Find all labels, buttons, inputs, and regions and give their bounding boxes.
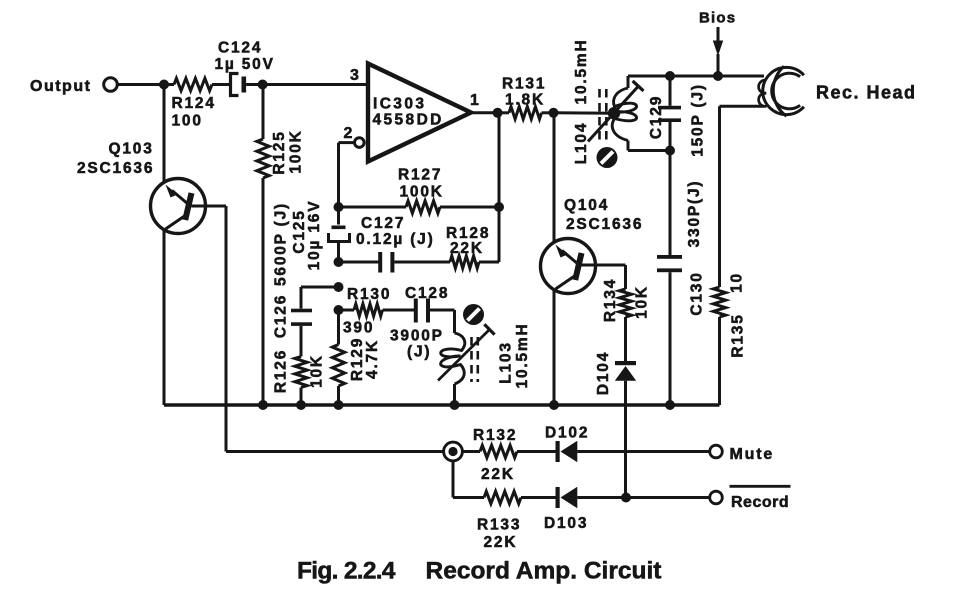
rail junction R125 [258,400,268,410]
node A junction [159,80,169,90]
inductor L104 [573,39,637,165]
node H junction [334,305,344,315]
svg-text:5600P (J): 5600P (J) [273,202,290,286]
svg-text:L103: L103 [497,341,514,384]
capacitor C128 [390,285,455,361]
svg-text:22K: 22K [450,240,484,257]
wire op-amp output [471,111,498,114]
svg-text:R126: R126 [273,349,290,393]
connector node M bullseye [444,442,463,461]
wire rec head return [720,106,765,287]
L103 core dashes [472,337,478,382]
svg-text:2SC1636: 2SC1636 [77,160,154,177]
svg-text:C128: C128 [405,285,449,302]
svg-text:R125: R125 [271,130,288,174]
svg-text:(J): (J) [407,344,431,361]
svg-text:C127: C127 [361,215,405,232]
rail junction R126 [296,400,306,410]
wire output to node A [117,83,164,86]
svg-text:10: 10 [729,272,746,293]
svg-text:D104: D104 [595,351,612,395]
wire C124 to node B [246,83,263,86]
transistor Q103 [77,85,206,406]
node I junction [549,108,559,118]
svg-text:L104: L104 [573,122,590,165]
L103 adjust arrow [438,324,495,380]
pin 2 bubble [355,138,365,148]
svg-text:R135: R135 [730,313,747,357]
Mute terminal [710,445,774,463]
diode D102 [545,425,710,463]
Record terminal [710,486,791,511]
capacitor C130 [657,180,706,405]
svg-text:R124: R124 [172,95,216,112]
diode D104 [595,351,636,498]
rail junction Q104 [549,400,559,410]
resistor R125 [257,85,305,406]
svg-text:10.5mH: 10.5mH [514,323,531,389]
inductor L103 [441,310,531,405]
Output terminal [30,78,117,95]
node D junction [334,202,344,212]
wire bullseye down [453,460,484,498]
svg-text:Q103: Q103 [109,141,154,158]
resistor R134 [602,278,651,361]
svg-text:10µ 16V: 10µ 16V [306,200,323,271]
svg-text:R134: R134 [602,278,619,322]
L104 adjust arrow [588,81,644,142]
svg-text:C124: C124 [218,40,262,57]
rail junction R129 [334,400,344,410]
wire node B to op-amp pin 3 [263,67,368,85]
resistor R128 [446,207,499,268]
node F junction [334,257,344,267]
rail junction C130 [665,400,675,410]
svg-text:C126: C126 [273,294,290,338]
svg-text:10K: 10K [634,285,651,319]
svg-text:10.5mH: 10.5mH [573,39,590,105]
resistor R127 [339,167,500,214]
op-amp U1 IC303 [344,64,481,162]
transistor Q104 [541,113,644,405]
svg-text:10K: 10K [309,354,326,388]
svg-text:R133: R133 [477,517,521,534]
svg-text:C129: C129 [648,95,665,139]
svg-text:100: 100 [172,113,203,130]
svg-text:Q104: Q104 [564,197,609,214]
resistor R131 [498,76,554,120]
svg-text:D103: D103 [544,515,588,532]
L104 core dashes [600,89,607,145]
L104 screw adjust [597,147,618,168]
wire top rail [670,75,764,78]
svg-text:100K: 100K [400,184,444,201]
labels C126 value [273,202,290,338]
node C junction (output) [493,108,503,118]
Bios arrow [713,27,723,76]
svg-text:330P(J): 330P(J) [686,180,703,248]
svg-text:2SC1636: 2SC1636 [566,216,643,233]
svg-text:C130: C130 [689,271,706,315]
resistor R130 [339,286,415,337]
svg-text:2: 2 [344,125,355,142]
svg-text:R130: R130 [347,286,391,303]
wire L104 top lead [628,76,670,88]
node N junction [621,493,631,503]
capacitor C125 [291,200,349,271]
svg-text:D102: D102 [545,425,589,442]
svg-text:3: 3 [350,67,361,84]
svg-text:22K: 22K [484,534,518,551]
capacitor C126 [291,309,312,357]
diode D103 [544,487,710,532]
svg-text:4558DD: 4558DD [373,112,444,129]
resistor R129 [332,310,381,405]
svg-text:Record: Record [731,494,789,511]
Bios label [699,10,736,27]
wire node G to C126 [301,287,339,309]
capacitor C129 [648,76,707,157]
resistor R133 [477,491,556,551]
svg-text:100K: 100K [288,129,305,173]
svg-text:390: 390 [343,320,374,337]
rec head Rec. Head [759,66,917,116]
svg-text:Rec. Head: Rec. Head [816,83,917,103]
svg-text:Mute: Mute [730,446,775,463]
svg-text:1: 1 [470,92,481,109]
svg-text:Output: Output [30,78,91,95]
wire Q104 base [582,265,626,289]
svg-text:1.8K: 1.8K [505,92,545,109]
node L junction [713,71,723,81]
svg-text:1µ 50V: 1µ 50V [215,56,275,73]
rail junction L103 [450,400,460,410]
svg-text:R131: R131 [502,76,546,93]
svg-text:3900P: 3900P [390,328,444,345]
wire mute row left [226,450,445,453]
node J junction [665,71,675,81]
svg-text:4.7K: 4.7K [364,339,381,379]
svg-text:R127: R127 [398,167,442,184]
wire pin2 to feedback column [339,143,355,207]
svg-text:22K: 22K [481,466,515,483]
resistor R132 [461,427,556,483]
capacitor C127 [339,215,451,273]
wire to L104 [554,111,614,114]
svg-text:Record Amp. Circuit: Record Amp. Circuit [426,558,662,585]
svg-text:150P (J): 150P (J) [690,83,707,157]
svg-text:IC303: IC303 [373,96,426,113]
L103 screw adjust [463,304,484,325]
node B junction [258,80,268,90]
resistor R124 [164,78,229,129]
svg-text:0.12µ (J): 0.12µ (J) [356,231,435,248]
node G junction [334,282,344,292]
node K junction [665,146,675,156]
bottom rail wire [164,403,720,407]
svg-text:R132: R132 [473,427,517,444]
wire Q103 base [192,206,227,452]
capacitor C124 [215,40,275,96]
svg-text:Bios: Bios [699,10,736,27]
node E junction [494,202,504,212]
svg-text:Fig. 2.2.4: Fig. 2.2.4 [297,558,396,585]
wire C129 to C130 [669,151,672,256]
resistor R126 [273,349,326,405]
wire L104 bottom lead [628,141,670,151]
caption [297,558,661,585]
resistor R135 [713,272,746,405]
wire output column [498,113,501,262]
